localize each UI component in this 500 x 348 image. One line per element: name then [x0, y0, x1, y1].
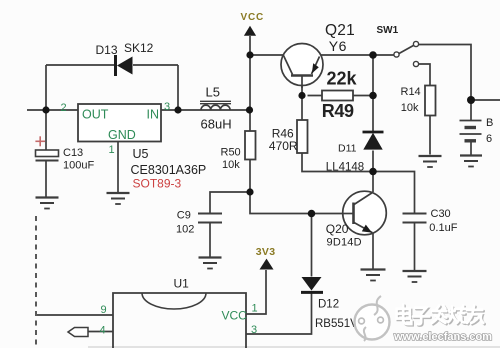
- svg-text:6: 6: [486, 133, 492, 145]
- svg-text:3V3: 3V3: [256, 246, 276, 258]
- svg-text:R50: R50: [221, 146, 241, 158]
- svg-text:1: 1: [109, 144, 115, 156]
- svg-text:C13: C13: [63, 147, 83, 159]
- svg-text:100uF: 100uF: [63, 159, 94, 171]
- svg-text:1: 1: [252, 303, 258, 315]
- svg-text:Y6: Y6: [329, 38, 347, 54]
- svg-text:10k: 10k: [401, 102, 419, 114]
- svg-text:VCC: VCC: [241, 12, 265, 23]
- svg-text:4: 4: [100, 324, 106, 336]
- svg-text:CE8301A36P: CE8301A36P: [131, 163, 207, 177]
- svg-text:SK12: SK12: [124, 41, 154, 55]
- svg-text:68uH: 68uH: [201, 116, 232, 131]
- svg-text:2: 2: [61, 102, 67, 114]
- svg-text:U5: U5: [133, 147, 149, 161]
- svg-text:IN: IN: [147, 107, 160, 121]
- svg-text:LL4148: LL4148: [326, 162, 364, 174]
- svg-text:R49: R49: [322, 101, 354, 121]
- svg-text:3: 3: [251, 324, 257, 336]
- svg-text:D13: D13: [96, 43, 118, 57]
- svg-text:Q21: Q21: [325, 22, 355, 39]
- svg-text:470R: 470R: [269, 139, 298, 153]
- svg-text:SOT89-3: SOT89-3: [133, 177, 182, 191]
- svg-text:L5: L5: [206, 84, 220, 99]
- svg-text:GND: GND: [108, 128, 136, 142]
- svg-text:102: 102: [176, 223, 194, 235]
- svg-text:R14: R14: [401, 86, 421, 98]
- svg-text:D12: D12: [318, 299, 339, 311]
- svg-text:RB551V: RB551V: [315, 318, 358, 330]
- svg-text:3: 3: [164, 101, 170, 113]
- svg-text:Q20: Q20: [326, 222, 349, 236]
- svg-text:VCC: VCC: [222, 308, 248, 322]
- svg-text:22k: 22k: [327, 68, 358, 88]
- svg-text:www.elecfans.com: www.elecfans.com: [393, 331, 492, 343]
- svg-text:OUT: OUT: [82, 107, 109, 121]
- svg-text:SW1: SW1: [377, 25, 399, 36]
- svg-text:U1: U1: [174, 277, 190, 291]
- svg-text:10k: 10k: [222, 159, 240, 171]
- svg-text:B: B: [486, 117, 493, 129]
- svg-text:D11: D11: [338, 143, 357, 155]
- svg-text:9D14D: 9D14D: [327, 237, 362, 249]
- svg-text:9: 9: [101, 304, 107, 316]
- svg-text:C30: C30: [431, 208, 451, 220]
- svg-text:0.1uF: 0.1uF: [429, 222, 457, 234]
- svg-text:C9: C9: [177, 210, 191, 222]
